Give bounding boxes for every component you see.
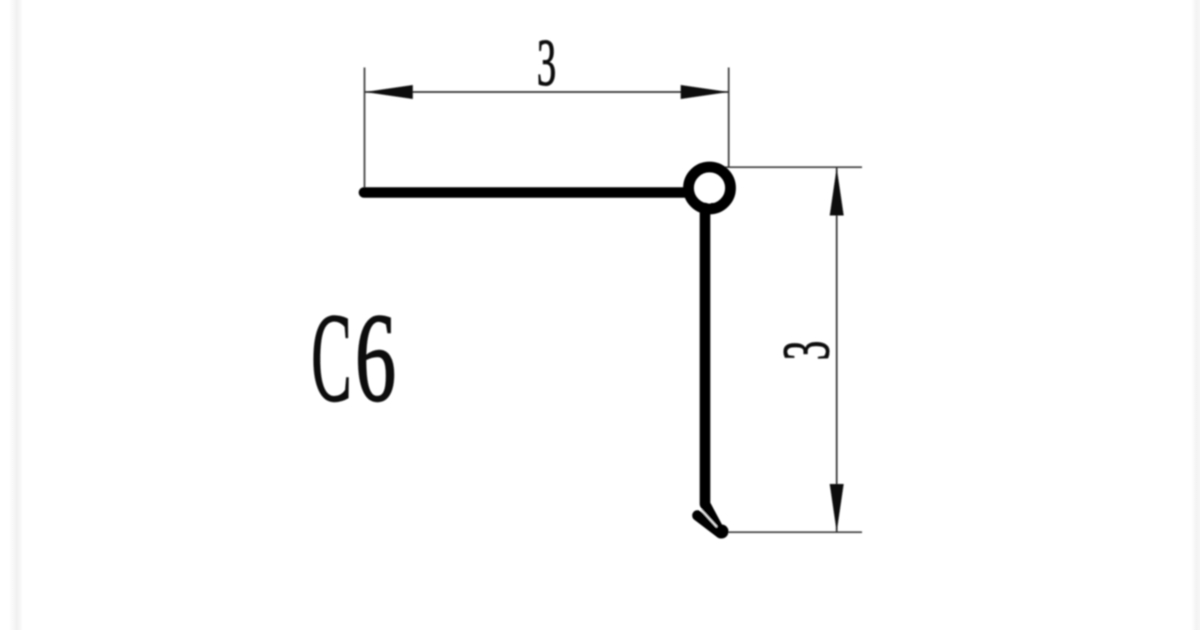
horizontal dimension: right extension line [728, 68, 730, 168]
profile: vertical leg with bottom kick hem [698, 208, 721, 533]
vertical dimension: bottom arrowhead [830, 484, 844, 532]
horizontal dimension: left arrowhead [365, 85, 413, 99]
svg-text:3: 3 [537, 26, 556, 99]
profile: hemmed loop (circle) [689, 167, 731, 209]
horizontal dimension line [365, 91, 729, 93]
svg-text:C: C [311, 287, 351, 429]
hem fold gap (thin light slit inside the fold) [701, 510, 716, 527]
profile: loop-to-leg neck flare [711, 203, 726, 214]
horizontal dimension: left extension line [364, 68, 366, 188]
vertical dimension: bottom extension line [729, 531, 863, 533]
vertical dimension line [836, 168, 838, 533]
vertical dimension: top arrowhead [830, 168, 844, 216]
vertical dimension text "3" (rotated) [770, 341, 843, 360]
profile: top flange (thick horizontal leg) [364, 187, 688, 198]
svg-text:6: 6 [355, 289, 396, 429]
hem fold tip lobe [715, 525, 729, 539]
right page-edge shading band [1191, 0, 1200, 630]
horizontal dimension: right arrowhead [681, 85, 729, 99]
vertical dimension: top extension line [724, 166, 863, 168]
left page-edge shading band [9, 0, 23, 630]
svg-text:3: 3 [770, 341, 843, 360]
